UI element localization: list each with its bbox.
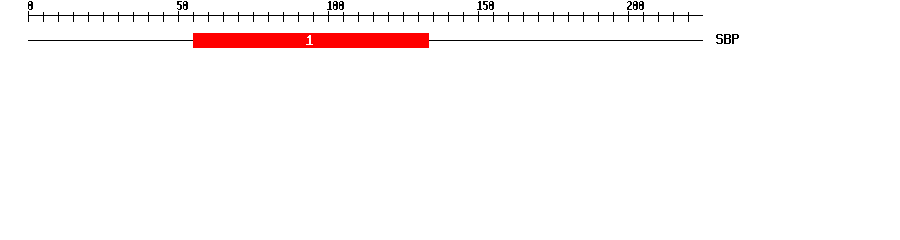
tick label 50	[177, 1, 188, 10]
track label SBP	[716, 34, 739, 44]
minor ticks (every 5 units)	[43, 12, 689, 22]
feature label 1	[306, 35, 313, 45]
tick label 100	[327, 1, 344, 10]
tick label 150	[477, 1, 494, 10]
track baseline (SBP track)	[28, 40, 703, 41]
ruler baseline (0-225 scale)	[28, 15, 703, 16]
major tick 50	[178, 11, 179, 22]
tick label 0	[28, 1, 33, 10]
major tick 0	[28, 11, 29, 22]
major tick 150	[478, 11, 479, 22]
tick label 200	[627, 1, 644, 10]
feature box 1 (red segment 55-133)	[193, 33, 429, 48]
major tick 200	[628, 11, 629, 22]
major tick 100	[328, 11, 329, 22]
